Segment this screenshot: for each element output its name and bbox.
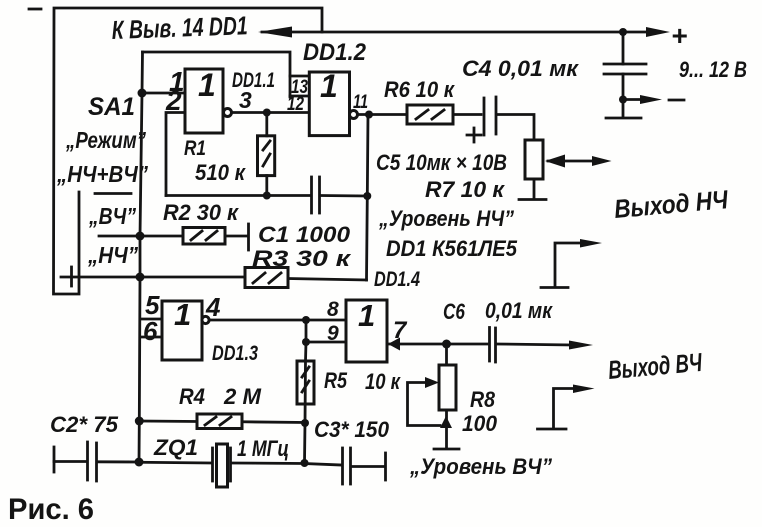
potentiometer R7: [525, 140, 543, 179]
resistor R3: [245, 268, 288, 288]
switch SA1 pole outline: [54, 8, 323, 294]
svg-text:ZQ1: ZQ1: [153, 435, 198, 460]
svg-text:7: 7: [393, 317, 408, 344]
ground common below R7: [519, 198, 546, 201]
svg-text:+: +: [671, 20, 687, 51]
svg-text:С2* 75: С2* 75: [50, 412, 119, 437]
svg-text:6: 6: [143, 316, 158, 346]
svg-text:8: 8: [327, 298, 339, 321]
wire feedback top to pin 13: [143, 52, 291, 97]
wire to quartz: [139, 461, 211, 465]
resistor R1: [265, 113, 268, 136]
svg-text:1 МГц: 1 МГц: [237, 436, 289, 461]
wire pin 2 DD1.1 down to C1 line: [166, 113, 185, 196]
svg-text:DD1.3: DD1.3: [212, 342, 258, 365]
overline above ВЧ: [95, 192, 131, 195]
node pin 9 junction: [302, 338, 310, 346]
node junction C4 top: [619, 28, 627, 36]
op-amp gate DD1.4: [346, 300, 387, 362]
resistor R4: [139, 420, 197, 423]
svg-text:R1: R1: [184, 137, 206, 160]
svg-text:DD1 К561ЛЕ5: DD1 К561ЛЕ5: [386, 236, 518, 261]
wire arrow supply plus (right): [646, 27, 670, 37]
op-amp gate DD1.1: [185, 69, 223, 133]
switch contact tick: [70, 267, 73, 286]
resistor R6: [407, 105, 453, 124]
svg-text:3: 3: [239, 87, 252, 113]
capacitor C5: [483, 98, 486, 135]
op-amp gate DD1.2: [309, 72, 349, 136]
wire R7 wiper output НЧ: [548, 160, 596, 163]
svg-text:„ВЧ”: „ВЧ”: [88, 203, 136, 229]
svg-text:4: 4: [205, 292, 221, 322]
terminal bar after R2: [247, 224, 250, 250]
svg-text:10 к: 10 к: [365, 369, 402, 394]
label minus: [669, 99, 684, 102]
wire pin 1 DD1.1: [142, 92, 185, 95]
node ВЧ junction: [136, 232, 145, 241]
node C6 junction: [442, 340, 451, 349]
svg-text:100: 100: [462, 411, 498, 436]
capacitor C4: [622, 32, 625, 64]
svg-text:9... 12 В: 9... 12 В: [679, 57, 747, 82]
svg-text:R5: R5: [324, 368, 348, 393]
node C2 junction: [135, 458, 144, 467]
svg-text:„НЧ”: „НЧ”: [87, 242, 138, 268]
svg-text:R7 10 к: R7 10 к: [425, 177, 506, 202]
node bottom bus junction: [301, 459, 309, 467]
svg-text:„НЧ+ВЧ”: „НЧ+ВЧ”: [56, 161, 148, 187]
svg-text:С3* 150: С3* 150: [314, 417, 390, 442]
capacitor C1: [310, 177, 313, 213]
terminal bar after C3: [384, 453, 387, 480]
wire НЧ mode: [61, 276, 245, 279]
wire R5 bus: [305, 320, 307, 463]
svg-text:1: 1: [174, 297, 191, 332]
svg-text:0,01 мк: 0,01 мк: [485, 298, 554, 323]
wire DD1.4 output: [387, 343, 487, 346]
svg-text:С1 1000: С1 1000: [258, 222, 351, 247]
wire SA1 bus vertical: [139, 52, 143, 462]
svg-text:R6 10 к: R6 10 к: [384, 77, 456, 102]
wire to C3: [305, 464, 342, 466]
svg-text:1: 1: [320, 68, 338, 104]
node DD1.2 output junction: [365, 111, 373, 119]
wire minus output: [623, 98, 642, 101]
wire pin 6 stub: [140, 336, 162, 339]
node supply rail: [262, 31, 652, 34]
wire DD1.1 output to DD1.2: [232, 111, 310, 114]
svg-text:„Уровень НЧ”: „Уровень НЧ”: [378, 206, 514, 231]
wire DD1.3 output to DD1.4: [209, 319, 346, 322]
node R1 top junction: [263, 109, 271, 117]
svg-text:R3 30 к: R3 30 к: [252, 246, 352, 271]
svg-text:R8: R8: [470, 387, 496, 412]
svg-text:К Выв. 14 DD1: К Выв. 14 DD1: [111, 10, 248, 45]
op-amp gate DD1.3: [162, 301, 202, 360]
wire arrow to pin 14 DD1 (left): [258, 27, 292, 38]
scan artifact dash top left: [29, 8, 41, 11]
wire R8 wiper loop: [408, 383, 441, 426]
resistor R5: [297, 361, 314, 404]
svg-text:1: 1: [198, 67, 216, 103]
svg-text:„Уровень ВЧ”: „Уровень ВЧ”: [409, 454, 552, 479]
svg-text:С6: С6: [443, 299, 466, 324]
svg-text:1: 1: [358, 298, 375, 333]
svg-text:С5 10мк × 10В: С5 10мк × 10В: [376, 150, 507, 175]
svg-text:9: 9: [327, 322, 339, 345]
node НЧ junction: [136, 273, 145, 282]
svg-text:11: 11: [353, 92, 368, 113]
svg-text:SA1: SA1: [88, 93, 135, 121]
capacitor C2: [53, 447, 56, 472]
svg-text:R2 30 к: R2 30 к: [163, 200, 240, 225]
svg-text:R4: R4: [179, 384, 205, 409]
svg-text:Рис. 6: Рис. 6: [8, 493, 94, 526]
ground common below C4: [622, 100, 625, 117]
svg-text:510 к: 510 к: [195, 160, 247, 185]
capacitor C6: [488, 328, 491, 362]
wire pin 13 stub: [290, 75, 309, 78]
svg-text:2: 2: [165, 85, 182, 116]
output port ВЧ ground leg: [554, 389, 576, 429]
svg-text:DD1.2: DD1.2: [303, 39, 367, 66]
output port НЧ ground leg: [555, 243, 582, 286]
node R4 right junction: [301, 419, 309, 427]
wire pin 9 stub: [306, 341, 346, 344]
wire feedback vertical right: [367, 115, 369, 281]
svg-text:„Режим”: „Режим”: [65, 127, 146, 153]
node pin 8 junction: [302, 316, 310, 324]
wire C1 line: [166, 194, 311, 197]
quartz ZQ1: [211, 448, 214, 481]
capacitor C3: [341, 448, 344, 484]
wire bottom bus: [54, 460, 86, 463]
wire pin 5 stub: [140, 318, 162, 321]
node pin1 junction: [138, 89, 147, 98]
wire pin 12 stub: [290, 95, 309, 98]
wire DD1.2 output to R6: [358, 113, 408, 116]
potentiometer R8: [445, 344, 448, 365]
wire ВЧ mode: [99, 235, 183, 238]
svg-text:2 М: 2 М: [223, 384, 262, 409]
resistor R2: [183, 228, 225, 245]
svg-text:DD1.4: DD1.4: [374, 268, 420, 291]
wire arrow at pin 7 output: [388, 338, 400, 351]
svg-text:С4 0,01 мк: С4 0,01 мк: [462, 56, 580, 81]
node C1 right junction: [363, 192, 371, 200]
ground common below R8: [434, 448, 459, 451]
node junction C4 bottom: [619, 96, 627, 104]
node R1 bottom junction: [263, 192, 271, 200]
svg-text:12: 12: [287, 94, 304, 115]
